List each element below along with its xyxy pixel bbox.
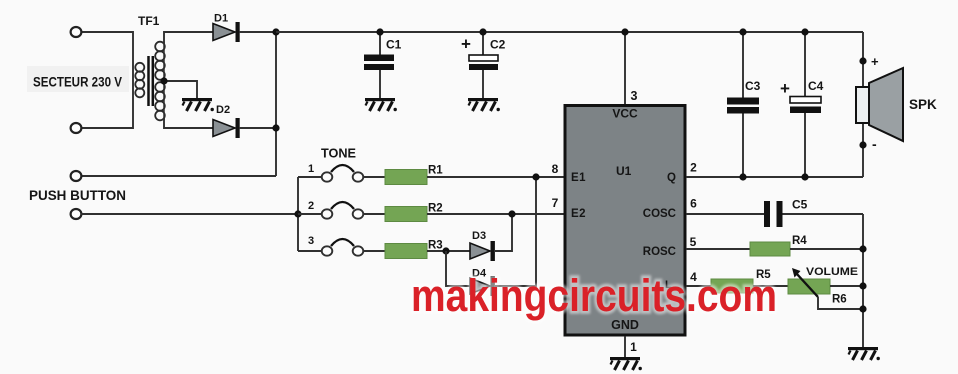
wire: COSC line pin 6 bbox=[686, 213, 764, 215]
wire: mains input leads bbox=[81, 32, 133, 128]
node: wiper on bus bbox=[859, 305, 866, 312]
wire: R6 right terminal to bus bbox=[830, 285, 863, 287]
svg-text:makingcircuits.com: makingcircuits.com bbox=[411, 270, 777, 321]
node: bus junction bbox=[294, 210, 301, 217]
svg-text:7: 7 bbox=[552, 196, 559, 210]
svg-text:U1: U1 bbox=[616, 164, 632, 178]
label SECTEUR 230 V bbox=[27, 66, 129, 92]
node after R3 bbox=[442, 247, 449, 254]
svg-text:Q: Q bbox=[667, 172, 676, 184]
svg-text:E2: E2 bbox=[571, 208, 586, 220]
wire: R3 to D3 bbox=[427, 250, 470, 252]
node: R6 on bus bbox=[859, 282, 866, 289]
wire: IC pin1 to ground bbox=[624, 336, 626, 357]
capacitor C5 bbox=[764, 198, 808, 228]
wire: branch down to D4 bbox=[446, 251, 470, 286]
wire: speaker branch vertical bbox=[862, 32, 864, 177]
node: R4 on bus bbox=[859, 245, 866, 252]
svg-text:C5: C5 bbox=[792, 198, 808, 212]
svg-text:R1: R1 bbox=[428, 165, 443, 177]
IC U1 body bbox=[565, 106, 685, 336]
svg-text:E1: E1 bbox=[571, 172, 586, 184]
ground (C1) bbox=[365, 98, 397, 111]
svg-text:PUSH BUTTON: PUSH BUTTON bbox=[29, 188, 126, 203]
wire: ROSC line pin 5 bbox=[686, 248, 750, 250]
watermark makingcircuits.com bbox=[411, 270, 777, 321]
wire: R4 to right bus bbox=[790, 248, 863, 250]
capacitor C4 electrolytic bbox=[780, 28, 824, 180]
svg-text:C4: C4 bbox=[808, 79, 824, 93]
resistor R5 bbox=[711, 269, 771, 293]
transformer TF1 core bbox=[147, 56, 150, 106]
svg-text:VOLUME: VOLUME bbox=[806, 266, 858, 278]
svg-text:1: 1 bbox=[308, 163, 314, 175]
svg-text:C1: C1 bbox=[386, 38, 402, 52]
node: VCC on rail bbox=[621, 28, 628, 35]
svg-text:1: 1 bbox=[630, 340, 637, 354]
resistor R3 bbox=[385, 240, 443, 259]
capacitor C1 bbox=[364, 28, 402, 98]
resistor R2 bbox=[385, 203, 443, 222]
ground (IC pin 1) bbox=[610, 357, 642, 370]
terminal: mains bottom bbox=[71, 123, 82, 133]
potentiometer R6 bbox=[788, 268, 847, 306]
svg-text:D2: D2 bbox=[216, 104, 230, 116]
svg-text:C3: C3 bbox=[745, 79, 761, 93]
svg-text:6: 6 bbox=[690, 197, 697, 211]
wire: R6 wiper return bbox=[818, 297, 863, 309]
capacitor C3 bbox=[727, 28, 761, 180]
svg-text:R6: R6 bbox=[832, 294, 847, 306]
diode D1 bbox=[213, 13, 240, 43]
node: speaker plus bbox=[859, 57, 866, 64]
diode D2 bbox=[213, 104, 240, 138]
svg-text:ROSC: ROSC bbox=[643, 246, 676, 258]
wire: center tap to ground bbox=[164, 81, 197, 98]
switch 2 bbox=[298, 200, 385, 219]
wire: right ground bus bbox=[862, 214, 864, 347]
svg-text:-: - bbox=[872, 136, 877, 152]
svg-text:3: 3 bbox=[308, 235, 314, 247]
wire: push button bottom line to switch bus bbox=[81, 213, 298, 215]
svg-text:R2: R2 bbox=[428, 203, 443, 215]
switch 1 bbox=[298, 163, 385, 182]
svg-text:R3: R3 bbox=[428, 240, 443, 252]
wire: secondary top to D1 bbox=[164, 32, 213, 44]
terminal: push button bottom bbox=[71, 209, 82, 219]
diode D3 bbox=[470, 230, 495, 261]
svg-text:+: + bbox=[871, 54, 879, 69]
svg-text:D3: D3 bbox=[472, 230, 486, 242]
svg-text:D1: D1 bbox=[214, 13, 228, 25]
transformer TF1 primary winding bbox=[135, 63, 144, 98]
ground (C2) bbox=[468, 98, 500, 111]
ground (transformer center tap) bbox=[182, 98, 214, 111]
wire: push button top line bbox=[81, 175, 276, 177]
switch 3 bbox=[298, 235, 385, 256]
wire: secondary bottom to D2 bbox=[164, 118, 213, 128]
wire: D3 cathode up to E2 line bbox=[494, 214, 512, 251]
wire: R1 to E1 bbox=[427, 176, 564, 178]
node: center tap junction bbox=[160, 77, 167, 84]
svg-text:8: 8 bbox=[552, 162, 559, 176]
svg-text:TF1: TF1 bbox=[138, 14, 160, 28]
svg-text:5: 5 bbox=[690, 235, 697, 249]
speaker SPK bbox=[856, 68, 937, 141]
svg-text:TONE: TONE bbox=[321, 147, 356, 161]
svg-text:2: 2 bbox=[308, 200, 314, 212]
node: D4 to E1 bbox=[532, 173, 539, 180]
node: D3 to E2 bbox=[508, 210, 515, 217]
resistor R1 bbox=[385, 165, 443, 185]
svg-text:2: 2 bbox=[690, 161, 697, 175]
resistor R4 bbox=[750, 235, 807, 256]
node: speaker minus bbox=[859, 141, 866, 148]
wire: D2 cathode bbox=[239, 127, 276, 129]
wire: D1 cathode bbox=[239, 31, 276, 33]
wire: VCC pin 3 bbox=[624, 32, 626, 105]
wire: rectifier bus vertical bbox=[275, 32, 277, 176]
svg-text:R4: R4 bbox=[792, 235, 807, 247]
svg-text:COSC: COSC bbox=[643, 208, 676, 220]
ground (right bus) bbox=[848, 347, 880, 360]
svg-text:+: + bbox=[780, 79, 790, 98]
transformer TF1 secondary winding bbox=[155, 42, 165, 121]
wire: switch bus vertical bbox=[297, 177, 299, 251]
svg-text:3: 3 bbox=[631, 89, 638, 103]
node at D1 output bbox=[272, 28, 279, 35]
svg-text:+: + bbox=[461, 35, 471, 54]
wire: R2 to E2 bbox=[427, 213, 564, 215]
wire: Q output line bbox=[686, 176, 863, 178]
wire: pin 4 line bbox=[686, 285, 711, 287]
svg-text:VCC: VCC bbox=[612, 107, 638, 121]
terminal: mains top bbox=[71, 27, 82, 37]
svg-text:SPK: SPK bbox=[909, 97, 937, 112]
node at D2 output bbox=[272, 124, 279, 131]
wire: R5 to R6 bbox=[753, 285, 788, 287]
wire: top supply rail bbox=[276, 31, 863, 33]
svg-text:C2: C2 bbox=[490, 38, 506, 52]
diode D4 bbox=[470, 268, 495, 297]
svg-text:SECTEUR 230 V: SECTEUR 230 V bbox=[33, 75, 122, 90]
wire: D4 cathode up to E1 line bbox=[494, 177, 536, 286]
terminal: push button top bbox=[71, 171, 82, 181]
wire: C5 to right bus bbox=[783, 213, 864, 215]
capacitor C2 electrolytic bbox=[461, 28, 506, 98]
